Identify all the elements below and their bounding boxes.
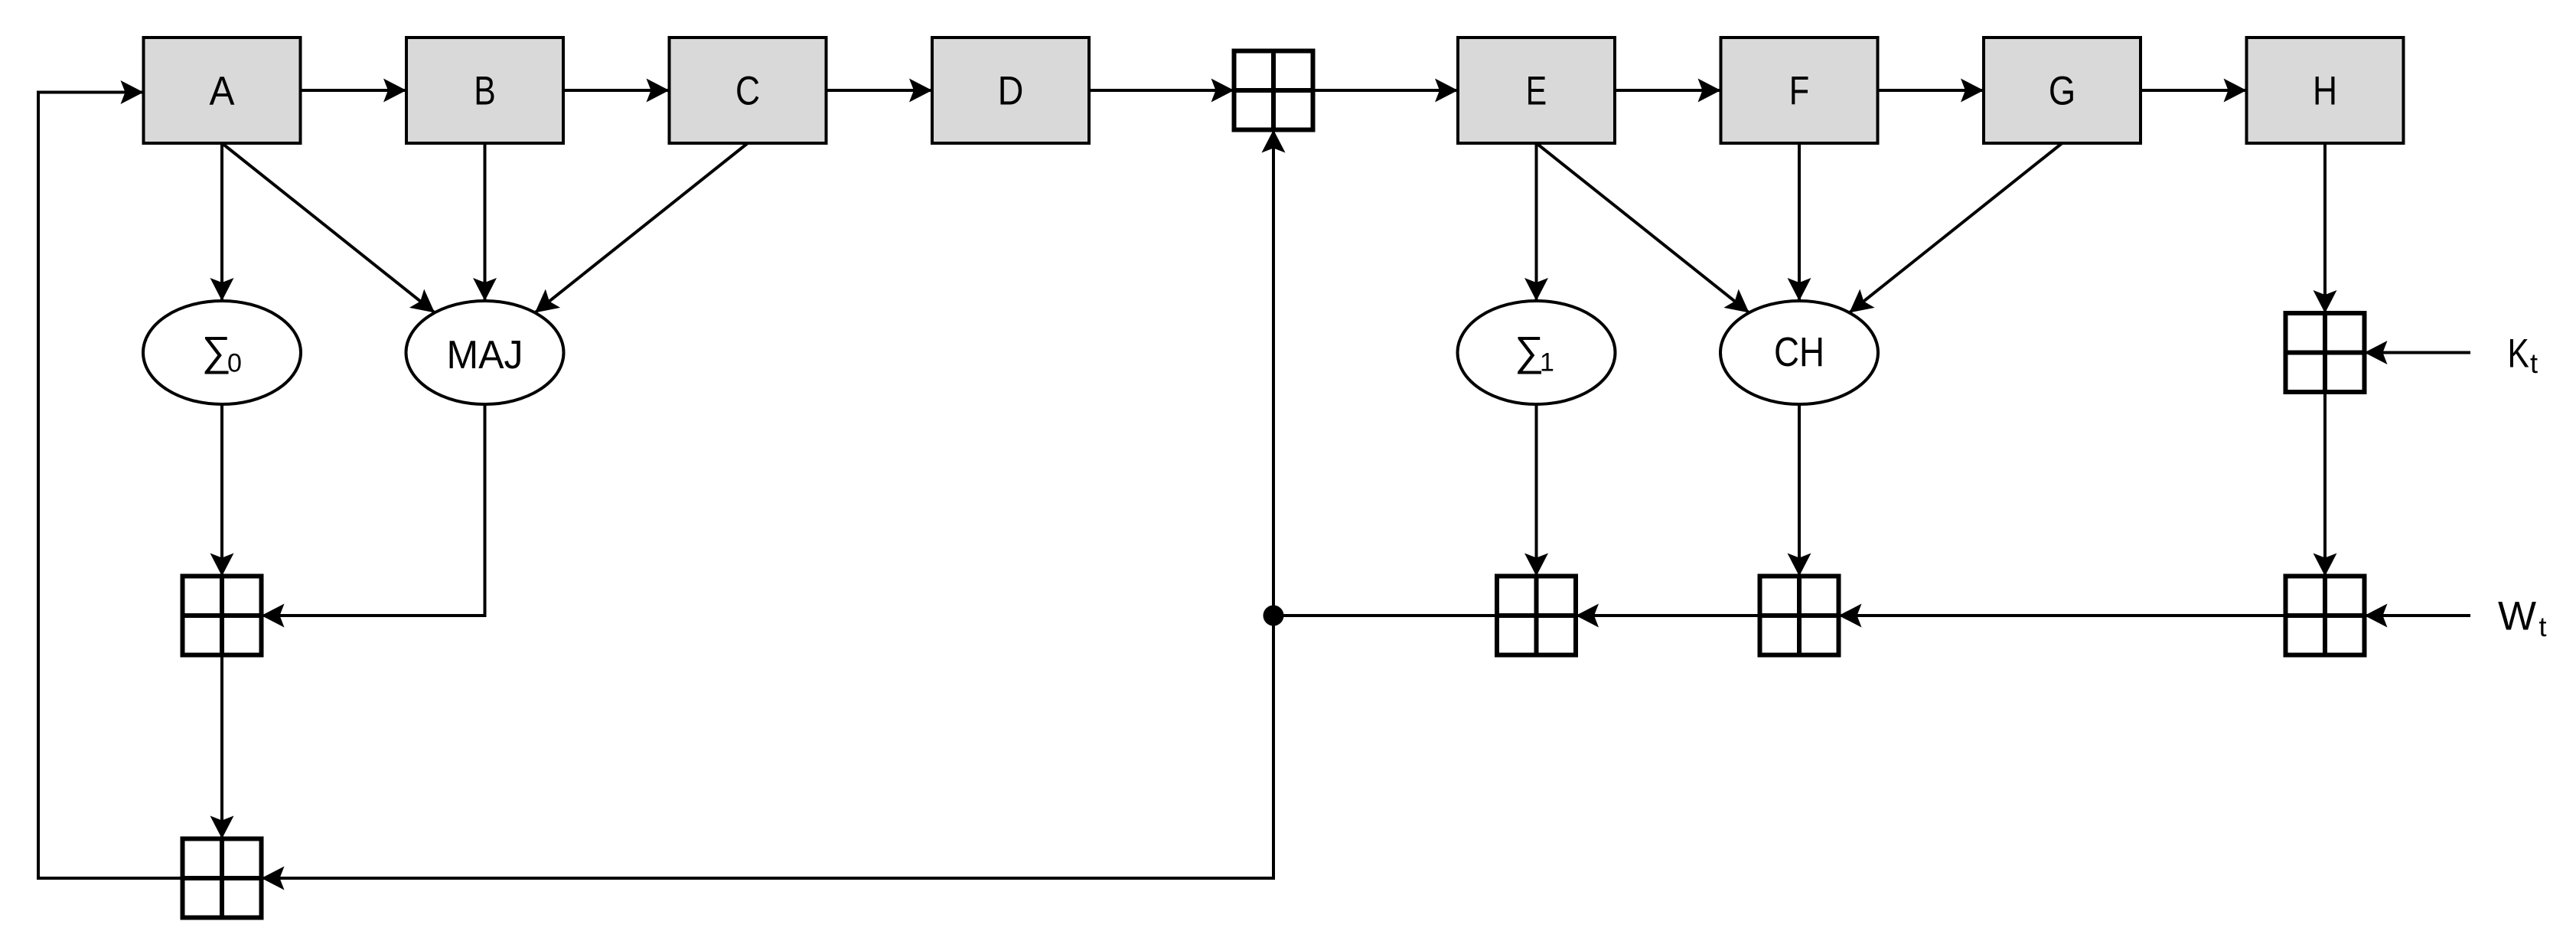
wire A to B xyxy=(301,89,407,92)
wire ADDW to ADDCH xyxy=(1839,614,2286,617)
adder ADDW (below H, Wt input) xyxy=(2286,577,2365,655)
label Kt xyxy=(2508,332,2539,380)
wire Kt input xyxy=(2365,351,2471,354)
wire A diagonal to MAJ xyxy=(222,143,435,312)
svg-text:K: K xyxy=(2508,332,2529,377)
svg-text:CH: CH xyxy=(1774,329,1824,375)
wire ADDK down to ADDW xyxy=(2323,392,2327,577)
adder ADDA (bottom left, new A) xyxy=(183,839,262,918)
wire E down to SIGMA1 xyxy=(1535,143,1538,301)
wire ADD2 down to ADDA xyxy=(220,655,223,839)
svg-text:1: 1 xyxy=(1540,348,1554,377)
wire CH down to ADDCH xyxy=(1798,404,1801,577)
wire SIGMA1 down to ADDS1 xyxy=(1535,404,1538,577)
wire junction down then left to ADDA xyxy=(262,616,1274,878)
wire F to G xyxy=(1878,89,1984,92)
register A xyxy=(144,38,301,143)
svg-text:D: D xyxy=(998,69,1024,114)
wire Wt input xyxy=(2365,614,2471,617)
register G xyxy=(1984,38,2141,143)
wire C to D xyxy=(827,89,933,92)
wire ADD1 to E xyxy=(1313,89,1459,92)
wire ADDA feedback to A xyxy=(38,93,183,879)
register H xyxy=(2247,38,2404,143)
wire ADDCH to ADDS1 xyxy=(1576,614,1760,617)
wire junction up to ADD1 xyxy=(1272,130,1275,616)
svg-text:C: C xyxy=(735,69,760,114)
adder ADDS1 (below SIGMA1) xyxy=(1497,577,1576,655)
svg-text:MAJ: MAJ xyxy=(447,333,523,377)
wire MAJ down then left to ADD2 xyxy=(262,404,485,616)
wire B down to MAJ xyxy=(484,143,487,301)
wire E to F xyxy=(1615,89,1721,92)
register C xyxy=(670,38,827,143)
wire D to ADD1 xyxy=(1089,89,1234,92)
wire F down to CH xyxy=(1798,143,1801,301)
adder ADDCH (below CH) xyxy=(1760,577,1839,655)
wire B to C xyxy=(563,89,670,92)
svg-text:t: t xyxy=(2530,348,2538,379)
wire A down to SIGMA0 xyxy=(220,143,223,301)
register F xyxy=(1721,38,1878,143)
svg-text:W: W xyxy=(2498,594,2536,639)
adder ADD2 (below SIGMA0) xyxy=(183,577,262,655)
svg-text:E: E xyxy=(1526,69,1547,114)
register E xyxy=(1458,38,1615,143)
junction dot xyxy=(1264,606,1284,626)
wire G diagonal to CH xyxy=(1850,143,2062,312)
svg-text:B: B xyxy=(474,69,496,114)
wire C diagonal to MAJ xyxy=(535,143,748,312)
svg-text:t: t xyxy=(2539,611,2547,642)
ellipse CH xyxy=(1720,301,1878,404)
register B xyxy=(406,38,563,143)
register D xyxy=(932,38,1089,143)
adder ADD1 (top, between D and E) xyxy=(1234,51,1313,130)
svg-text:F: F xyxy=(1789,69,1810,114)
wire E diagonal to CH xyxy=(1537,143,1749,312)
ellipse MAJ xyxy=(406,301,564,404)
wire H down to ADDK xyxy=(2323,143,2327,313)
wire G to H xyxy=(2141,89,2247,92)
label Wt xyxy=(2498,594,2547,643)
wire SIGMA0 down to ADD2 xyxy=(220,404,223,577)
svg-text:0: 0 xyxy=(227,349,242,378)
ellipse SIGMA0 xyxy=(143,301,301,404)
svg-text:A: A xyxy=(210,69,236,114)
svg-text:H: H xyxy=(2313,69,2337,114)
adder ADDK (below H, Kt input) xyxy=(2286,313,2365,392)
svg-text:G: G xyxy=(2049,69,2075,114)
wire ADDS1 to junction xyxy=(1273,614,1497,617)
ellipse SIGMA1 xyxy=(1458,301,1616,404)
